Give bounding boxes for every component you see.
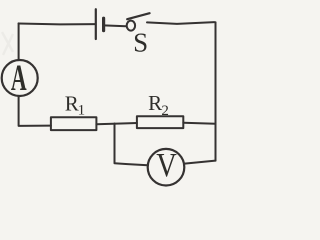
svg-text:A: A (11, 57, 27, 98)
wire: junction between R1 and R2 down and to voltmeter left terminal (115, 124, 148, 166)
paper background (0, 0, 238, 189)
wire: right side vertical (215, 22, 217, 160)
voltmeter V1 circle (148, 149, 185, 186)
wire: switch to top-right corner (147, 22, 214, 24)
resistor R2 body (137, 116, 183, 128)
svg-text:V: V (156, 146, 177, 184)
battery B1 short plate (-) (102, 18, 105, 30)
faint scan smudge top-left (2, 32, 13, 55)
battery B1 long plate (+) (95, 9, 97, 39)
wire: R2 right to right side wire (183, 123, 215, 124)
svg-text:1: 1 (78, 103, 86, 119)
svg-text:S: S (133, 28, 148, 58)
svg-text:R: R (148, 91, 162, 115)
wire: ammeter top terminal up to top-left corner (18, 23, 20, 59)
switch S pivot circle (127, 21, 135, 31)
switch S blade (open) (127, 13, 149, 19)
wire: right-bottom corner to voltmeter right terminal (185, 161, 216, 164)
wire: R1 right to R2 left (junction node) (96, 123, 136, 124)
wire: top-left corner to battery positive plate (19, 23, 96, 26)
resistor R1 body (51, 117, 97, 130)
wire: bottom-left vertical from ammeter and corner to R1 (19, 96, 51, 126)
ammeter A1 circle (2, 60, 38, 96)
wire: battery negative to switch pivot (104, 24, 126, 27)
svg-text:2: 2 (161, 103, 169, 119)
